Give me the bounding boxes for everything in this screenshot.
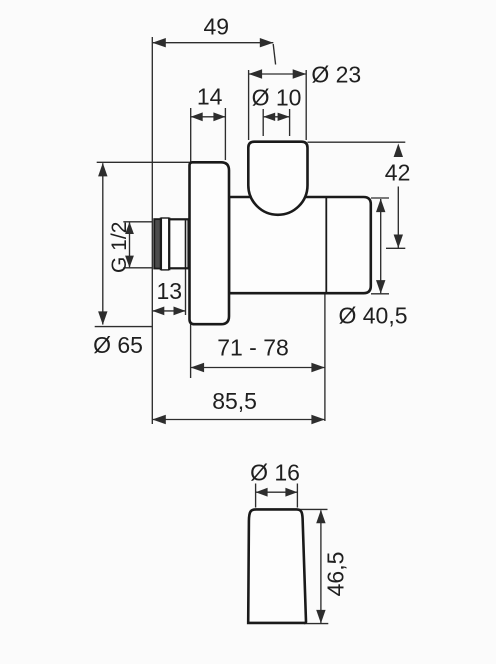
svg-text:Ø 10: Ø 10 (252, 85, 302, 111)
svg-text:71 - 78: 71 - 78 (217, 335, 289, 361)
svg-text:14: 14 (197, 84, 223, 110)
svg-text:Ø 65: Ø 65 (93, 332, 143, 358)
svg-text:49: 49 (204, 14, 230, 40)
svg-text:Ø 40,5: Ø 40,5 (338, 303, 407, 329)
svg-text:46,5: 46,5 (322, 552, 348, 597)
svg-text:G 1/2: G 1/2 (108, 222, 131, 273)
svg-text:85,5: 85,5 (212, 388, 257, 414)
svg-text:Ø 16: Ø 16 (250, 459, 300, 485)
svg-text:13: 13 (157, 278, 183, 304)
svg-text:Ø 23: Ø 23 (311, 61, 361, 87)
svg-text:42: 42 (385, 159, 411, 185)
